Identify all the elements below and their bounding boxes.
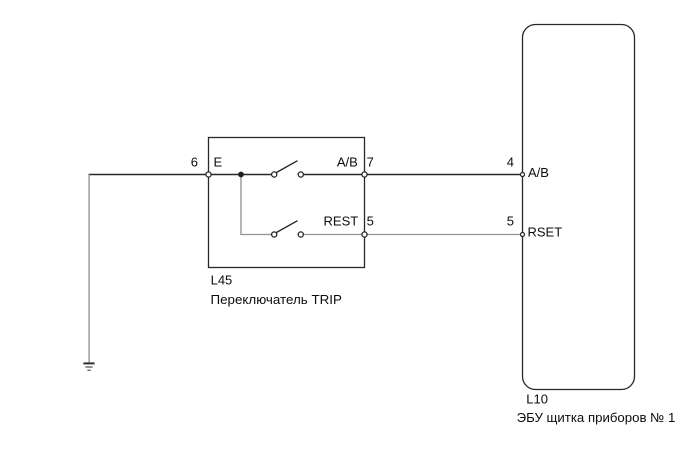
svg-text:L10: L10 (526, 391, 548, 406)
ECU L10 box (523, 25, 635, 390)
switch lever REST (276, 221, 297, 233)
svg-text:RSET: RSET (528, 225, 563, 240)
wire: pin 6 E to A/B contact (209, 174, 273, 176)
wire: A/B contact to pin 7 (303, 174, 365, 176)
terminal pin 7 (362, 172, 367, 177)
switch contact A/B right (298, 172, 303, 177)
wire: REST contact to pin 5 (gray) (303, 234, 365, 236)
svg-text:L45: L45 (211, 272, 233, 287)
switch contact REST left (272, 232, 277, 237)
ground (83, 363, 94, 370)
svg-text:5: 5 (507, 214, 514, 229)
wire A/B: switch pin 7 to L10 pin 4 (365, 174, 523, 176)
svg-text:ЭБУ щитка приборов № 1: ЭБУ щитка приборов № 1 (517, 410, 676, 425)
svg-text:E: E (214, 155, 223, 170)
svg-text:7: 7 (367, 155, 374, 170)
junction node E dot (238, 172, 244, 178)
switch contact REST right (298, 232, 303, 237)
svg-text:Переключатель TRIP: Переключатель TRIP (211, 292, 342, 307)
svg-text:6: 6 (191, 155, 198, 170)
wire: E net, pin 6 to corner (dark horizontal) (89, 174, 209, 176)
wire: junction to REST contact (gray) (241, 175, 272, 235)
svg-text:4: 4 (507, 155, 514, 170)
svg-text:A/B: A/B (337, 155, 358, 170)
terminal pin 4 (L10) (521, 173, 525, 177)
terminal pin 5 (switch) (362, 232, 367, 237)
switch lever A/B (276, 161, 297, 173)
switch L45 box (209, 138, 365, 268)
wire RSET: switch pin 5 to L10 pin 5 (gray) (365, 234, 523, 236)
terminal pin 5 (L10) (521, 233, 525, 237)
svg-text:5: 5 (367, 214, 374, 229)
svg-text:REST: REST (324, 214, 359, 229)
switch contact A/B left (272, 172, 277, 177)
terminal pin 6 (206, 172, 211, 177)
wire: E net vertical drop to ground (gray) (88, 175, 90, 363)
svg-text:A/B: A/B (528, 165, 549, 180)
